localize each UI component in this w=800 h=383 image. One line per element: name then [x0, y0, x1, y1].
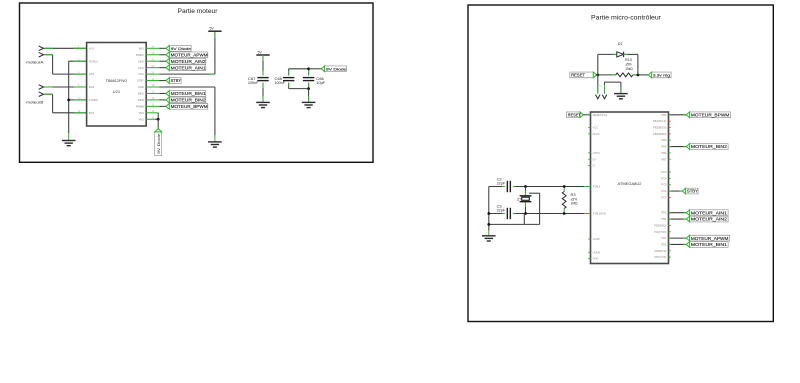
wire U21 VM1 to net label 9V Diode — [146, 47, 159, 49]
svg-text:RESET/PC1: RESET/PC1 — [593, 113, 608, 117]
connector moteurA pin 1 (open arrow) — [39, 46, 44, 51]
net label 9V Diode (capacitor bank) — [321, 66, 347, 72]
svg-text:PB4: PB4 — [661, 138, 666, 142]
wire VM2 node down to 9V Diode label — [157, 119, 159, 128]
svg-text:100nF: 100nF — [275, 81, 286, 85]
svg-text:PD1: PD1 — [661, 217, 667, 221]
net label MOTEUR_AIN2 — [166, 58, 206, 64]
wire R3 top pin — [563, 187, 565, 192]
wire crystal shield loop — [529, 192, 540, 194]
net label MOTEUR_AIN2 (ATMEGA PD1) — [686, 216, 728, 222]
svg-text:PC7: PC7 — [661, 195, 667, 199]
wire U21 VM2 right — [146, 118, 155, 120]
connector moteurA pin 2 (open arrow) — [39, 52, 44, 57]
wire ATMEGA PD5 to net label MOTEUR_BIN1 — [669, 243, 687, 245]
capacitor C3 (horizontal, in XTAL2 wire) — [504, 211, 514, 217]
wire U21 GND right and down to ground — [146, 86, 159, 88]
svg-text:MOTEUR_AIN1: MOTEUR_AIN1 — [171, 65, 207, 70]
sheet frame: Partie micro-controleur section box — [468, 5, 773, 322]
net label MOTEUR_BIN2 (ATMEGA PB5) — [686, 144, 728, 150]
svg-text:AVCC: AVCC — [593, 132, 600, 136]
net label MOTEUR_AIN1 — [166, 65, 206, 71]
svg-text:5V: 5V — [210, 27, 215, 31]
diode D1 — [617, 52, 624, 58]
svg-text:PB1(SCLK): PB1(SCLK) — [653, 119, 667, 123]
ground symbol (C67) — [256, 102, 270, 107]
wire moteurA.1 to U21 AO1 — [44, 47, 86, 49]
wire ATMEGA PB0 to net label MOTEUR_BPWM — [669, 114, 687, 116]
ground symbol (PGND rail) — [62, 133, 76, 146]
svg-text:PWMB: PWMB — [136, 104, 144, 108]
svg-text:MOTEUR_BIN1: MOTEUR_BIN1 — [171, 91, 207, 96]
jumper J1 pin 2 (open arrow down) — [602, 95, 607, 99]
junction PGND2 / ground rail — [67, 99, 70, 102]
junction C66 top / 9V Diode net — [307, 67, 310, 70]
svg-text:PC4: PC4 — [661, 176, 667, 180]
wire RESET node to R13 left — [597, 74, 616, 76]
svg-text:PC6: PC6 — [661, 189, 667, 193]
U21 right pin name texts — [136, 46, 145, 121]
svg-text:D-: D- — [593, 164, 596, 168]
wire XTAL2 net horizontal — [489, 213, 591, 215]
svg-text:BIN2: BIN2 — [138, 98, 144, 102]
svg-text:AO2: AO2 — [89, 72, 95, 76]
svg-text:AIN1: AIN1 — [138, 66, 144, 70]
IC U21 body (TB6612FNG) — [87, 43, 147, 127]
svg-text:PGND1: PGND1 — [89, 59, 98, 63]
svg-text:RESET: RESET — [568, 112, 581, 117]
net label STBY (ATMEGA PC6) — [682, 188, 698, 194]
wire XTAL1 net horizontal — [489, 186, 591, 188]
wire C65 top up and right to 9V Diode node — [288, 69, 290, 76]
capacitor C67 — [257, 78, 268, 81]
svg-text:PD5: PD5 — [661, 242, 667, 246]
svg-text:PD6(RTS): PD6(RTS) — [654, 249, 666, 253]
svg-text:MOTEUR_BIN1: MOTEUR_BIN1 — [691, 242, 728, 247]
svg-text:XTAL2/PC0: XTAL2/PC0 — [593, 212, 607, 216]
wire ATMEGA PB5 to net label MOTEUR_BIN2 — [669, 146, 687, 148]
svg-text:XTAL1: XTAL1 — [593, 185, 601, 189]
wire RESET node down to jumper pin 1 — [597, 75, 599, 92]
power symbol 5V (U21 VCC) — [208, 27, 221, 32]
svg-text:PB6: PB6 — [661, 151, 666, 155]
svg-text:AIN2: AIN2 — [138, 59, 144, 63]
net label MOTEUR_APWM — [166, 52, 208, 58]
svg-text:D+: D+ — [593, 157, 597, 161]
sheet frame: Partie moteur section box — [20, 3, 374, 162]
power symbol 5V (C67) — [256, 50, 269, 55]
svg-text:PGND2: PGND2 — [89, 98, 98, 102]
svg-text:PD7(CTS): PD7(CTS) — [654, 255, 666, 259]
net label MOTEUR_BIN1 — [166, 91, 206, 97]
svg-text:PB3(MISO): PB3(MISO) — [653, 132, 666, 136]
svg-text:RESET: RESET — [571, 73, 585, 78]
svg-text:100nF: 100nF — [248, 81, 259, 85]
junction R3 bottom / XTAL2 — [563, 212, 566, 215]
svg-text:1: 1 — [46, 85, 48, 87]
wire C66 bottom node to ground — [308, 89, 310, 102]
wire C65 bottom down and right — [288, 83, 290, 89]
junction 3.3v node — [637, 74, 640, 77]
svg-text:PB0: PB0 — [661, 113, 666, 117]
svg-text:±5%: ±5% — [625, 63, 632, 67]
svg-text:MOTEUR_APWM: MOTEUR_APWM — [691, 236, 729, 241]
net label MOTEUR_BPWM — [166, 104, 208, 110]
svg-text:1: 1 — [46, 46, 48, 48]
svg-text:MOTEUR_AIN1: MOTEUR_AIN1 — [691, 210, 728, 215]
svg-text:PD4: PD4 — [661, 236, 667, 240]
junction left rail / XTAL2 — [487, 212, 490, 215]
svg-text:10µF: 10µF — [316, 81, 325, 85]
wire U21 AIN1 to net label — [146, 67, 159, 69]
svg-text:9V Diode: 9V Diode — [171, 46, 192, 51]
svg-text:BO2: BO2 — [89, 85, 95, 89]
svg-text:STBY: STBY — [171, 78, 182, 83]
U21 left pin name texts — [89, 46, 98, 115]
svg-text:9V Diode: 9V Diode — [156, 132, 161, 153]
svg-text:PC2: PC2 — [661, 170, 667, 174]
svg-text:PD3(TXD): PD3(TXD) — [654, 230, 666, 234]
wire C66 top node to net label 9V Diode — [309, 68, 322, 70]
svg-text:VM2: VM2 — [138, 117, 144, 121]
svg-text:10kΩ: 10kΩ — [625, 67, 633, 71]
svg-text:BIN1: BIN1 — [138, 92, 144, 96]
svg-text:UCAP: UCAP — [593, 237, 600, 241]
svg-text:MOTEUR_BPWM: MOTEUR_BPWM — [691, 112, 730, 117]
wire ATMEGA PD4 to net label MOTEUR_APWM — [669, 237, 687, 239]
ground symbol (C65/C66) — [302, 102, 316, 107]
svg-text:MOTEUR_AIN2: MOTEUR_AIN2 — [171, 59, 207, 64]
wire crystal bottom pin — [525, 202, 527, 213]
svg-text:VCC: VCC — [138, 72, 144, 76]
wire U21 BIN1 to net label — [146, 92, 159, 94]
wire ATMEGA PC6 to net label STBY — [669, 190, 683, 192]
capacitor C2 (horizontal, in XTAL1 wire) — [504, 184, 514, 190]
net label MOTEUR_BIN2 — [166, 97, 206, 103]
svg-text:MOTEUR_AIN2: MOTEUR_AIN2 — [691, 217, 728, 222]
resistor R13 (horizontal) — [616, 73, 633, 77]
svg-text:UVCC: UVCC — [593, 151, 600, 155]
wire U21 VCC to 5V power — [146, 73, 159, 75]
wire 5V to C67 top — [262, 55, 264, 76]
wire R3 bottom pin — [563, 209, 565, 214]
moteurB pin number texts — [46, 85, 48, 94]
svg-text:STBY: STBY — [137, 79, 144, 83]
capacitor C66 — [303, 78, 314, 81]
wire U21 PWMB to net label — [146, 105, 159, 107]
resistor R3 (vertical) — [562, 192, 566, 209]
wire diode cathode to right vertical — [624, 53, 638, 55]
wire diode branch left vertical — [597, 54, 599, 75]
svg-text:MOTEUR_APWM: MOTEUR_APWM — [171, 52, 208, 57]
wire U21 PGND1 left to ground rail — [69, 60, 87, 62]
IC U1 body (ATMEGA8U2) — [591, 112, 669, 264]
net label MOTEUR_AIN1 (ATMEGA PD0) — [686, 210, 728, 216]
wire ground rail vertical (PGND net) — [68, 61, 70, 133]
wire C67 bottom to ground — [262, 83, 264, 102]
moteurA pin number texts — [46, 46, 48, 54]
wire U21 PGND2 left to ground rail — [69, 99, 87, 101]
svg-text:Partie micro-contrôleur: Partie micro-contrôleur — [591, 15, 662, 22]
svg-text:1MΩ: 1MΩ — [571, 202, 579, 206]
wire U21 VM3 right and down — [146, 112, 158, 114]
svg-text:D1: D1 — [618, 42, 623, 46]
svg-text:VCC: VCC — [593, 126, 599, 130]
U21 left pin number texts — [78, 46, 81, 114]
svg-text:U21: U21 — [113, 90, 121, 94]
net label RESET (at ATMEGA) — [567, 112, 584, 118]
net label RESET (reset circuit) — [570, 72, 597, 78]
capacitor C65 — [283, 78, 294, 81]
svg-text:GND: GND — [593, 257, 599, 261]
svg-text:PD2(RXD): PD2(RXD) — [654, 223, 666, 227]
svg-text:ATMEGA8U2: ATMEGA8U2 — [618, 182, 642, 186]
ATMEGA left pin name texts — [593, 113, 608, 261]
svg-text:BO1: BO1 — [89, 111, 95, 115]
wire U21 AIN2 to net label — [146, 60, 159, 62]
wire jumper pin 2 up and right to ground — [604, 82, 606, 92]
svg-text:5V: 5V — [258, 50, 263, 54]
ATMEGA right pin name texts — [653, 113, 667, 259]
svg-text:PB5: PB5 — [661, 145, 666, 149]
ground symbol (jumper J1) — [614, 87, 628, 99]
svg-text:AO1: AO1 — [89, 46, 95, 50]
net label MOTEUR_APWM (ATMEGA PD4) — [686, 235, 729, 241]
wire crystal top pin — [525, 187, 527, 196]
svg-text:MOTEUR_BPWM: MOTEUR_BPWM — [171, 104, 208, 109]
svg-text:GND: GND — [138, 85, 144, 89]
jumper J1 pin 1 (open arrow down) — [596, 95, 601, 99]
ground symbol (crystal circuit) — [482, 230, 496, 241]
net label 9V Diode (U21 VM1) — [166, 45, 192, 51]
svg-text:MOTEUR_BIN2: MOTEUR_BIN2 — [171, 98, 207, 103]
junction crystal bottom / XTAL2 — [524, 212, 527, 215]
wire C66 top pin — [308, 69, 310, 76]
svg-text:22pF: 22pF — [497, 208, 506, 212]
wire left rail down to ground (crystal circuit) — [488, 187, 490, 231]
net label 9V Diode (vertical, U21 VM supply) — [155, 129, 162, 156]
wire U21 PWMA to net label — [146, 54, 159, 56]
junction VM2/VM3 node — [157, 118, 160, 121]
net label STBY — [166, 78, 181, 84]
svg-text:9V Diode: 9V Diode — [326, 66, 347, 71]
junction C66 bottom / ground net — [307, 87, 310, 90]
net label MOTEUR_BIN1 (ATMEGA PD5) — [686, 242, 728, 248]
wire C66 bottom pin — [308, 83, 310, 89]
wire RESET label to ATMEGA RESET pin — [583, 114, 590, 116]
svg-text:J?: J? — [599, 84, 603, 87]
svg-text:22pF: 22pF — [497, 181, 506, 185]
svg-text:PD0: PD0 — [661, 211, 667, 215]
svg-text:VM3: VM3 — [138, 111, 144, 115]
svg-text:PC5: PC5 — [661, 183, 667, 187]
net label MOTEUR_BPWM (ATMEGA PB0) — [686, 112, 730, 118]
junction R3 top / XTAL1 — [563, 185, 566, 188]
svg-text:moteurB: moteurB — [26, 101, 44, 105]
net label 3.3v reg — [648, 72, 671, 78]
svg-text:TB6612FNG: TB6612FNG — [106, 79, 128, 83]
U21 right pin number texts — [152, 46, 155, 120]
svg-text:moteurA: moteurA — [26, 60, 44, 64]
svg-text:2: 2 — [46, 52, 48, 54]
svg-text:STBY: STBY — [687, 189, 698, 194]
svg-text:Partie moteur: Partie moteur — [178, 8, 219, 15]
svg-text:VM1: VM1 — [138, 46, 144, 50]
junction RESET node — [596, 74, 599, 77]
wire U21 STBY to net label — [146, 80, 159, 82]
connector moteurB pin 1 (open arrow) — [39, 85, 44, 90]
svg-text:PB2(MOSI): PB2(MOSI) — [653, 126, 666, 130]
wire U21 BIN2 to net label — [146, 99, 159, 101]
wire ATMEGA PD0 to net label MOTEUR_AIN1 — [669, 212, 687, 214]
wire ATMEGA PD1 to net label MOTEUR_AIN2 — [669, 218, 687, 220]
wire moteurB.1 to U21 BO2 — [44, 86, 86, 88]
junction crystal top / XTAL1 — [524, 185, 527, 188]
wire diode anode — [598, 53, 617, 55]
svg-text:MOTEUR_BIN2: MOTEUR_BIN2 — [691, 144, 728, 149]
wire diode branch right vertical — [637, 54, 639, 75]
ATMEGA unconnected left pin stubs — [588, 128, 590, 259]
svg-text:3.3v rég: 3.3v rég — [653, 74, 670, 78]
ground symbol (U21 GND) — [208, 135, 222, 147]
crystal Z1 — [520, 196, 532, 202]
svg-text:PWMA: PWMA — [136, 53, 144, 57]
svg-text:UGND: UGND — [593, 250, 601, 254]
ATMEGA unconnected right pin stubs — [669, 121, 671, 257]
wire moteurB.2 to U21 BO1 (right, down, right) — [44, 93, 52, 95]
wire R13 right to 3.3v node — [633, 74, 649, 76]
wire moteurA.2 to U21 AO2 (right, down, right) — [44, 54, 52, 56]
junction left rail / shield loop — [487, 223, 490, 226]
svg-text:PB7: PB7 — [661, 157, 666, 161]
connector moteurB pin 2 (open arrow) — [39, 92, 44, 97]
svg-text:Z?: Z? — [517, 198, 521, 202]
svg-text:R13: R13 — [625, 58, 632, 62]
